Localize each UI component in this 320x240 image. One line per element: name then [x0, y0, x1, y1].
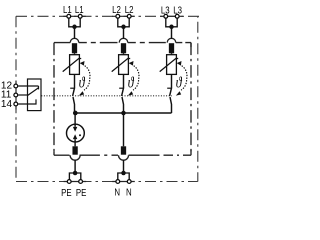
svg-text:ϑ: ϑ [79, 74, 86, 92]
svg-text:14: 14 [1, 99, 13, 110]
svg-text:L2: L2 [112, 4, 121, 15]
svg-text:ϑ: ϑ [128, 74, 135, 92]
svg-text:ϑ: ϑ [176, 74, 183, 92]
svg-text:L2: L2 [125, 4, 134, 15]
svg-text:L1: L1 [75, 4, 84, 15]
svg-text:L3: L3 [173, 5, 182, 16]
svg-text:PE: PE [61, 187, 72, 198]
svg-text:PE: PE [76, 187, 87, 198]
svg-text:N: N [114, 187, 120, 198]
svg-text:N: N [126, 187, 132, 198]
svg-text:L3: L3 [161, 5, 170, 16]
svg-text:L1: L1 [63, 4, 72, 15]
